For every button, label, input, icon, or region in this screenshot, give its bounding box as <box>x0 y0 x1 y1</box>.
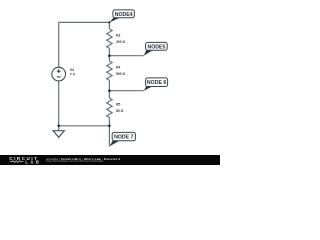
svg-text:NODE4: NODE4 <box>115 12 133 18</box>
node flag NODE 6 <box>146 78 168 87</box>
node flag NODE5 tail <box>144 50 153 56</box>
resistor chain vertical leads <box>108 22 110 125</box>
resistor R5 zigzag <box>107 98 112 118</box>
node flag NODE4 <box>113 10 134 18</box>
node flag NODE5 <box>146 42 168 50</box>
svg-text:80 Ω: 80 Ω <box>116 109 124 113</box>
svg-text:NODE 6: NODE 6 <box>147 80 166 86</box>
svg-text:http://circuitlab.com/c/r57kny: http://circuitlab.com/c/r57knym7kd2e8q <box>46 159 103 163</box>
wire stub down to NODE 7 anchor <box>108 126 110 147</box>
wire stub to NODE5 <box>109 55 143 57</box>
V2 plus sign <box>57 69 61 73</box>
svg-text:R3: R3 <box>116 34 120 38</box>
node flag NODE 7 tail <box>109 141 119 147</box>
svg-text:V2: V2 <box>70 68 74 72</box>
resistor R4 zigzag <box>107 61 112 81</box>
node flag NODE 7 <box>112 132 135 140</box>
voltage source V2 circle <box>52 67 66 81</box>
junction dot R3/R4 <box>108 54 111 57</box>
V2 minus sign <box>57 76 61 78</box>
svg-text:NODE5: NODE5 <box>147 44 165 50</box>
svg-text:R4: R4 <box>116 66 120 70</box>
ground stub <box>58 126 60 131</box>
svg-text:LAB: LAB <box>25 159 41 164</box>
wire: left vertical lower (V2 bottom to bottom rail) <box>58 81 60 126</box>
ground symbol <box>53 131 64 138</box>
footer black bar <box>0 155 220 165</box>
node flag NODE4 tail <box>109 18 120 23</box>
junction dot top right corner <box>108 21 110 23</box>
svg-text:NODE 7: NODE 7 <box>114 135 133 141</box>
node flag NODE 6 tail <box>144 86 153 91</box>
wire stub to NODE 6 <box>109 90 143 92</box>
svg-text:R5: R5 <box>116 103 120 107</box>
resistor R3 zigzag <box>107 29 112 49</box>
junction dot R4/R5 <box>108 89 111 92</box>
junction dot bottom right <box>108 125 111 128</box>
junction dot bottom left (ground) <box>57 125 60 128</box>
CircuitLab logo resistor zigzag <box>10 161 24 163</box>
wire: left vertical upper + top horizontal <box>59 22 110 67</box>
svg-text:500 Ω: 500 Ω <box>116 72 125 76</box>
svg-text:7 V: 7 V <box>70 73 76 77</box>
wire: bottom horizontal rail <box>59 125 110 127</box>
svg-text:200 Ω: 200 Ω <box>116 40 125 44</box>
